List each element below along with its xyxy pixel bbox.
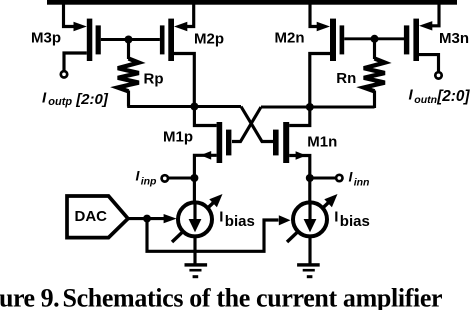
label M1n (307, 134, 337, 151)
svg-text:Schematics of the current ampl: Schematics of the current amplifier (63, 283, 443, 310)
DAC block (67, 196, 128, 238)
label Ioutn[2:0] (409, 87, 471, 106)
wire gate-n to M3n gate (375, 37, 405, 40)
label Ibias left (219, 209, 255, 230)
label M2n (275, 30, 305, 47)
wire DAC output (128, 217, 147, 220)
label M3p (31, 29, 61, 46)
svg-text:M2n: M2n (275, 30, 305, 47)
svg-text:ure 9.: ure 9. (0, 283, 59, 310)
label M3n (439, 30, 469, 47)
power rail (47, 0, 457, 5)
node gate-p junction (125, 36, 133, 44)
node Iinp junction (190, 174, 198, 182)
svg-text:[2:0]: [2:0] (75, 91, 109, 108)
svg-text:inp: inp (141, 176, 157, 188)
ground right (297, 263, 320, 278)
label Rp (144, 70, 164, 87)
svg-text:outn: outn (414, 94, 437, 106)
transistor M2n (310, 19, 375, 107)
node net-A junction (190, 103, 198, 111)
wire rail drop to M2n source (310, 3, 320, 27)
svg-text:Rp: Rp (144, 70, 164, 87)
resistor Rp (118, 40, 139, 107)
label Ioutp[2:0] (42, 89, 109, 108)
wire DAC to right Ibias control (147, 215, 291, 251)
current source Ibias left (172, 178, 223, 242)
svg-text:I: I (334, 209, 338, 226)
label Iinn (349, 169, 370, 189)
svg-text:I: I (42, 89, 47, 106)
node Iinn junction (306, 174, 314, 182)
label M1p (163, 128, 193, 145)
transistor M2p (160, 3, 194, 107)
node DAC junction (143, 215, 151, 223)
node gate-n junction (371, 35, 379, 43)
svg-text:DAC: DAC (75, 208, 108, 225)
svg-text:M1n: M1n (307, 134, 337, 151)
transistor M3n (404, 3, 439, 72)
wire rail drop to M3p source (64, 3, 76, 27)
label Ibias right (334, 209, 370, 230)
svg-text:I: I (219, 209, 223, 226)
svg-text:M3n: M3n (439, 30, 469, 47)
wire cross-couple net-A to M1n gate (241, 107, 274, 142)
wire Iinp junction to terminal (168, 177, 194, 180)
wire cross-couple net-B to M1p gate (232, 107, 261, 142)
svg-text:[2:0]: [2:0] (436, 88, 470, 105)
label Iinp (136, 168, 158, 188)
caption (0, 283, 442, 310)
current source Ibias right (287, 178, 338, 242)
svg-text:M3p: M3p (31, 29, 61, 46)
svg-text:outp: outp (48, 96, 72, 108)
svg-text:I: I (409, 87, 414, 104)
ground left (185, 263, 208, 278)
svg-text:M1p: M1p (163, 128, 193, 145)
terminal Iinp (162, 175, 168, 181)
terminal Ioutp (61, 71, 67, 77)
wire Iinn junction to terminal (310, 177, 336, 180)
label M2p (194, 31, 224, 48)
wire net-A horizontal (127, 105, 241, 108)
wire gate-p to M2p gate (129, 38, 160, 41)
terminal Iinn (336, 175, 342, 181)
terminal Ioutn (435, 72, 441, 78)
svg-text:inn: inn (354, 177, 370, 189)
wire left source to ground (193, 236, 196, 264)
wire net-B horizontal (261, 105, 375, 108)
transistor M1p (194, 107, 231, 179)
svg-text:bias: bias (225, 213, 255, 230)
svg-text:bias: bias (340, 213, 370, 230)
transistor M3p (64, 19, 129, 71)
resistor Rn (364, 39, 385, 108)
wire right source to ground (308, 236, 311, 264)
node net-B junction (306, 103, 314, 111)
svg-text:M2p: M2p (194, 31, 224, 48)
wire DAC to left Ibias control arrow (147, 214, 177, 223)
svg-text:Rn: Rn (336, 70, 356, 87)
label Rn (336, 70, 356, 87)
transistor M1n (273, 107, 310, 178)
